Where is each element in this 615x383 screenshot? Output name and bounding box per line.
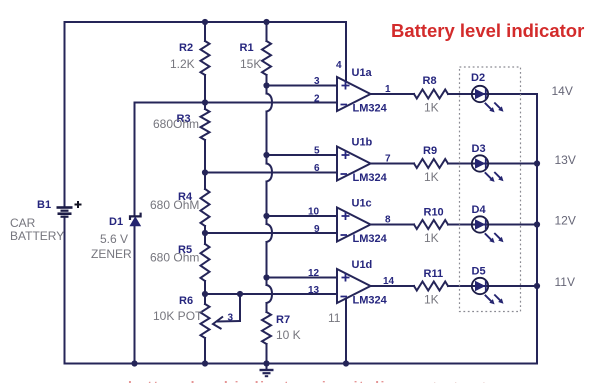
svg-text:R9: R9 bbox=[423, 145, 437, 157]
wire R6 wiper link vertical bbox=[239, 294, 241, 321]
svg-text:D5: D5 bbox=[472, 266, 486, 278]
wire R6 wiper link horizontal bbox=[218, 320, 240, 323]
wire R1 top segment bbox=[266, 22, 268, 41]
wire sense line seg3 bbox=[266, 242, 268, 285]
wire rail D (R5/R6 node to U1d pin13) bbox=[205, 293, 337, 295]
wire rail C (R4/R5 node to U1c pin9) bbox=[205, 232, 337, 234]
resistor R7 body bbox=[262, 312, 271, 344]
svg-text:R6: R6 bbox=[179, 295, 193, 307]
svg-text:6: 6 bbox=[314, 163, 320, 174]
wire right bus bbox=[536, 94, 538, 364]
wire D2 to right bus bbox=[489, 93, 538, 95]
svg-text:1: 1 bbox=[385, 84, 391, 95]
resistor R5 body bbox=[201, 244, 210, 281]
svg-text:D4: D4 bbox=[472, 204, 487, 216]
node zener at ground rail bbox=[131, 360, 137, 366]
wire U1b pin5 input bbox=[267, 154, 338, 156]
node R1 bottom / pin3 tap bbox=[263, 82, 269, 88]
svg-text:R8: R8 bbox=[423, 75, 437, 87]
wire U1c pin10 input bbox=[267, 215, 338, 217]
potentiometer R6 wiper arrowhead bbox=[213, 317, 223, 330]
ground symbol bbox=[260, 364, 274, 377]
svg-text:8: 8 bbox=[385, 215, 391, 226]
wire U1a pin3 input bbox=[267, 85, 338, 87]
wire R11 to D5 and bus bbox=[448, 285, 537, 287]
svg-text:LM324: LM324 bbox=[353, 103, 388, 115]
wire hop over rail A bbox=[267, 94, 273, 112]
wire chain segment R2-R3 bbox=[204, 75, 206, 109]
resistor R2 body bbox=[201, 41, 210, 75]
wire U1c output to R10 bbox=[371, 224, 415, 226]
svg-text:D1: D1 bbox=[109, 216, 123, 228]
resistor R3 body bbox=[201, 109, 210, 140]
battery plus sign bbox=[75, 201, 82, 208]
op-amp U1b bbox=[337, 147, 371, 181]
svg-text:13V: 13V bbox=[555, 153, 576, 167]
svg-text:4: 4 bbox=[336, 60, 342, 71]
wire rail B (R3/R4 node to U1b pin6) bbox=[205, 172, 337, 174]
node bus 12V bbox=[534, 221, 540, 227]
svg-text:11: 11 bbox=[328, 311, 341, 325]
svg-text:R2: R2 bbox=[179, 42, 193, 54]
node pin11 at ground rail bbox=[343, 360, 349, 366]
svg-text:U1d: U1d bbox=[352, 259, 373, 271]
node chain at ground rail bbox=[202, 360, 208, 366]
svg-text:10: 10 bbox=[308, 207, 320, 218]
wire zener branch lower bbox=[134, 226, 136, 364]
dashed LED group box bbox=[460, 67, 521, 312]
svg-text:R7: R7 bbox=[276, 314, 290, 326]
svg-text:3: 3 bbox=[314, 76, 320, 87]
wire rail A (node to U1a pin2) bbox=[135, 102, 338, 104]
wire R1 bottom to node pin3 bbox=[266, 75, 268, 94]
wire chain segment R4-R5 bbox=[204, 226, 206, 244]
svg-text:LM324: LM324 bbox=[353, 295, 388, 307]
resistor R1 body bbox=[262, 41, 271, 75]
svg-text:680Ohm: 680Ohm bbox=[153, 117, 199, 131]
svg-text:7: 7 bbox=[385, 154, 391, 165]
op-amp U1a bbox=[337, 77, 371, 111]
wire left outer upper (battery plus side) bbox=[64, 22, 66, 207]
wire R10 to D4 and bus bbox=[448, 224, 537, 226]
zener diode D1 body bbox=[130, 213, 141, 226]
svg-text:ZENER: ZENER bbox=[91, 247, 132, 261]
svg-text:U1a: U1a bbox=[352, 67, 373, 79]
resistor R6 body (potentiometer) bbox=[201, 304, 210, 338]
wire R8 to D2 bbox=[448, 93, 489, 95]
resistor R10 body bbox=[414, 220, 448, 229]
svg-text:U1b: U1b bbox=[352, 137, 373, 149]
wire U1d pin12 input bbox=[267, 277, 338, 279]
node R7 at ground rail bbox=[263, 360, 269, 366]
node R1 top bbox=[263, 19, 269, 25]
svg-text:12: 12 bbox=[308, 268, 320, 279]
svg-text:1K: 1K bbox=[424, 231, 439, 245]
wire U1d output to R11 bbox=[371, 285, 415, 287]
LED D2 bbox=[472, 86, 504, 113]
LED D4 bbox=[472, 216, 504, 243]
wire hop over rail C bbox=[267, 224, 273, 242]
svg-text:3: 3 bbox=[228, 313, 234, 324]
svg-text:9: 9 bbox=[314, 224, 320, 235]
svg-text:680 OhM: 680 OhM bbox=[150, 198, 199, 212]
svg-text:D2: D2 bbox=[471, 72, 485, 84]
wire sense line seg2 bbox=[266, 182, 268, 225]
svg-text:LM324: LM324 bbox=[353, 172, 388, 184]
wire U1a pin4 drop bbox=[345, 22, 347, 82]
svg-text:5.6 V: 5.6 V bbox=[100, 232, 128, 246]
wire chain segment R5-R6 bbox=[204, 281, 206, 304]
node bus 13V bbox=[534, 160, 540, 166]
wire R7 bottom to ground rail bbox=[266, 344, 268, 364]
wire chain segment R6-bottom bbox=[204, 338, 206, 364]
svg-text:14: 14 bbox=[383, 276, 395, 287]
svg-text:1K: 1K bbox=[424, 170, 439, 184]
svg-text:1K: 1K bbox=[424, 101, 439, 115]
node pin5 tap bbox=[263, 152, 269, 158]
svg-text:R11: R11 bbox=[424, 268, 444, 280]
svg-text:CAR: CAR bbox=[10, 216, 36, 230]
wire hop over rail D bbox=[267, 285, 273, 303]
wire hop over rail B bbox=[267, 164, 273, 182]
svg-text:2: 2 bbox=[314, 94, 320, 105]
svg-text:Battery level indicator: Battery level indicator bbox=[391, 20, 584, 41]
battery B1 plates bbox=[57, 208, 73, 217]
wire top rail bbox=[65, 21, 347, 23]
svg-text:5: 5 bbox=[314, 146, 320, 157]
node R2 top bbox=[202, 19, 208, 25]
resistor R11 body bbox=[414, 282, 448, 291]
svg-text:11V: 11V bbox=[555, 275, 575, 289]
wire R9 to D3 and bus bbox=[448, 163, 537, 165]
svg-text:1.2K: 1.2K bbox=[170, 57, 195, 71]
svg-text:B1: B1 bbox=[37, 199, 51, 211]
wire sense line seg4 to R7 bbox=[266, 303, 268, 312]
wire chain segment R3-R4 bbox=[204, 140, 206, 189]
node rail B / chain bbox=[202, 169, 208, 175]
svg-text:10 K: 10 K bbox=[276, 328, 301, 342]
LED D3 bbox=[472, 155, 504, 182]
node pin10 tap bbox=[263, 213, 269, 219]
node bus 11V bbox=[534, 283, 540, 289]
svg-text:LM324: LM324 bbox=[353, 233, 388, 245]
svg-text:13: 13 bbox=[308, 285, 320, 296]
LED D5 bbox=[472, 278, 504, 305]
svg-text:battery level indicator circui: battery level indicator circuit diagram bbox=[128, 378, 435, 383]
wire divider chain segment top bbox=[204, 22, 206, 41]
svg-text:R10: R10 bbox=[424, 207, 444, 219]
resistor R4 body bbox=[201, 189, 210, 226]
svg-text:1K: 1K bbox=[424, 293, 439, 307]
svg-text:680 Ohm: 680 Ohm bbox=[150, 251, 199, 265]
node wiper tap bbox=[237, 291, 243, 297]
resistor R9 body bbox=[414, 159, 448, 168]
node rail D / chain bbox=[202, 291, 208, 297]
wire bottom rail bbox=[65, 363, 538, 365]
wire zener branch upper bbox=[134, 103, 136, 217]
op-amp U1d bbox=[337, 269, 371, 303]
svg-text:U1c: U1c bbox=[352, 198, 372, 210]
svg-text:10K POT: 10K POT bbox=[153, 309, 203, 323]
svg-text:D3: D3 bbox=[472, 143, 486, 155]
wire U1d pin11 to ground rail bbox=[345, 299, 347, 364]
op-amp U1c bbox=[337, 208, 371, 242]
wire left outer lower (battery minus side) bbox=[64, 217, 66, 364]
node rail A / chain bbox=[202, 99, 208, 105]
node pin12 tap bbox=[263, 274, 269, 280]
wire U1b output to R9 bbox=[371, 163, 415, 165]
node rail C / chain bbox=[202, 230, 208, 236]
wire U1a output to R8 bbox=[371, 93, 415, 95]
svg-text:14V: 14V bbox=[552, 84, 573, 98]
svg-text:12V: 12V bbox=[555, 214, 576, 228]
svg-text:15K: 15K bbox=[240, 57, 261, 71]
resistor R8 body bbox=[414, 90, 448, 99]
svg-text:BATTERY: BATTERY bbox=[10, 229, 64, 243]
wire sense line seg1 bbox=[266, 112, 268, 164]
svg-text:R1: R1 bbox=[240, 42, 254, 54]
